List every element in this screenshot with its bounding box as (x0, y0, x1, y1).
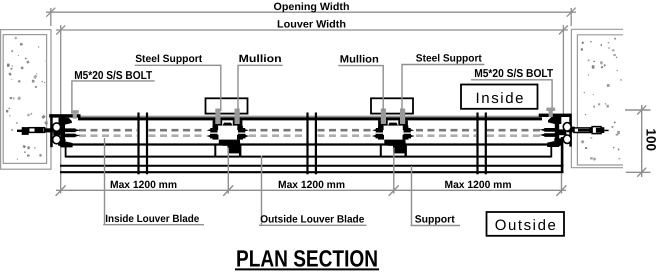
mullion M1 bottom bar (219, 140, 240, 145)
mullion M2 body left line below (380, 146, 382, 158)
left bracket upper blob (59, 118, 72, 125)
mullion M1 fin left lower (206, 134, 217, 139)
support label (411, 166, 461, 226)
louver frame top line (78, 117, 542, 120)
blade divider pair 2 (308, 113, 316, 175)
inside label box (461, 85, 538, 109)
mullion M1 corner block UR (237, 126, 243, 130)
right anchor bolt head (601, 127, 604, 133)
right bracket fin lower (540, 133, 556, 137)
right bracket nut between circles (559, 129, 566, 135)
M5*20 S/S bolt label left (72, 70, 155, 110)
right anchor bolt tip line (604, 130, 608, 132)
max 1200 mm dimension line (56, 185, 567, 196)
mullion M1 top cap (221, 123, 233, 128)
outside louver blade back line (66, 156, 552, 158)
mullion M2 corner block UR (403, 126, 409, 130)
svg-text:M5*20 S/S BOLT: M5*20 S/S BOLT (474, 68, 553, 80)
left anchor bolt mid block (35, 128, 44, 133)
left wall bracket assembly (17, 110, 81, 147)
opening width dimension (46, 8, 576, 26)
svg-text:Max 1200 mm: Max 1200 mm (445, 179, 512, 191)
mullion M1 bottom blob (228, 142, 241, 153)
left bracket bolt circle upper (53, 123, 61, 131)
svg-text:Steel Support: Steel Support (416, 52, 482, 64)
inside louver blade label (103, 138, 204, 225)
right bracket bottom blob (547, 138, 561, 147)
mullion 2 assembly (371, 98, 415, 157)
mullion M2 corner block UL (378, 126, 384, 130)
right bracket fin upper (540, 128, 556, 132)
mullion M1 fin left upper (207, 128, 218, 133)
mullion M2 bolt right (gray) (400, 109, 405, 125)
mullion label left (238, 53, 283, 111)
mullion 1 assembly (206, 98, 250, 157)
right bracket top plate (539, 114, 570, 117)
left bracket wall-face leg (50, 114, 53, 147)
mullion M1 fin right upper (238, 128, 249, 133)
mullion M2 top cap (387, 123, 399, 128)
mullion M2 bottom blob (393, 142, 406, 153)
mullion M2 fin left upper (372, 128, 383, 133)
mullion M2 fin left lower (372, 134, 383, 139)
svg-text:Max 1200 mm: Max 1200 mm (278, 179, 345, 191)
second louver blade (dashed, lighter) (79, 134, 545, 137)
blade frame right connector (550, 145, 552, 158)
steel support box M2 (371, 98, 413, 113)
blade divider pair 1 (139, 113, 148, 175)
mullion M2 corner block LL (378, 135, 384, 140)
left bracket fin lower (65, 134, 81, 138)
mullion label right (338, 53, 383, 111)
right bracket vertical bar (555, 116, 559, 145)
svg-text:100: 100 (644, 129, 657, 152)
svg-text:Support: Support (415, 213, 455, 225)
steel support label right (402, 52, 485, 111)
mullion M1 core white (217, 126, 238, 140)
right anchor bolt barrel 2 (outline) (592, 127, 601, 134)
steel support label left (135, 53, 221, 111)
left bracket S/S bolt head (gray) (71, 110, 79, 113)
svg-text:Outside Louver Blade: Outside Louver Blade (260, 213, 364, 225)
M5*20 S/S bolt label right (471, 68, 553, 108)
100 depth dimension (625, 105, 651, 177)
title PLAN SECTION (235, 246, 379, 272)
mullion M2 bolt left (gray) (381, 109, 386, 125)
left anchor bolt tip stub (17, 130, 23, 132)
max 1200 extension line right end (561, 174, 563, 194)
right anchor bolt barrel 2 thread (596, 128, 601, 133)
svg-text:Louver Width: Louver Width (277, 19, 346, 31)
right anchor bolt barrel 1 thread (578, 129, 590, 132)
left bracket bolt circle lower (53, 135, 61, 143)
max 1200 extension line at mullion 1 (227, 148, 229, 194)
mullion M2 nut right (398, 120, 408, 126)
right anchor bolt neck (567, 127, 575, 133)
left bracket vertical bar (61, 117, 65, 146)
mullion M2 fin right lower (404, 134, 415, 139)
right bracket S/S bolt stem (gray) (549, 111, 553, 117)
blade frame left connector (65, 145, 67, 158)
right bracket bolt circle upper (563, 123, 571, 131)
mullion M2 fin right upper (404, 128, 415, 133)
svg-text:Mullion: Mullion (340, 53, 379, 65)
mullion M2 body right line below (405, 146, 407, 158)
louver width dimension (56, 25, 568, 194)
left anchor bolt barrel (outline) (29, 128, 45, 133)
outside louver blade label (259, 156, 367, 226)
right wall (571, 29, 623, 167)
frame bottom line (60, 171, 564, 173)
mullion M1 body left line below (214, 146, 216, 158)
left bracket fin upper (65, 128, 81, 132)
outside louver blade front line (58, 143, 561, 145)
left bracket nut between circles (53, 130, 60, 136)
left wall (1, 30, 51, 170)
svg-text:Mullion: Mullion (239, 53, 282, 65)
right wall bracket assembly (539, 108, 609, 173)
svg-text:PLAN SECTION: PLAN SECTION (236, 246, 378, 272)
mullion M1 fin right lower (238, 134, 249, 139)
svg-text:Outside: Outside (495, 217, 556, 234)
steel support box M1 (206, 98, 248, 113)
mullion M2 nut left (378, 120, 388, 126)
mullion M1 nut left (213, 120, 223, 126)
svg-text:Max 1200 mm: Max 1200 mm (110, 179, 177, 191)
mullion M1 nut right (233, 120, 243, 126)
svg-text:Inside: Inside (476, 90, 524, 107)
right bracket bolt circle lower (563, 135, 571, 143)
mullion M1 bolt right (gray) (235, 109, 240, 125)
left anchor bolt neck (45, 128, 54, 132)
louver frame top gray fringe (80, 115, 541, 117)
svg-text:Opening Width: Opening Width (274, 1, 350, 13)
inside louver blade (dashed, hidden) (79, 129, 545, 132)
right bracket upper blob (548, 117, 561, 124)
mullion M2 corner block LR (403, 135, 409, 140)
left bracket bottom blob (58, 139, 72, 148)
mullion M1 corner block LL (213, 135, 219, 140)
right anchor bolt washer (590, 127, 593, 133)
right bracket S/S bolt head (gray) (546, 108, 555, 111)
mullion M1 body right line below (239, 146, 241, 158)
max 1200 extension line at mullion 2 (393, 148, 395, 194)
svg-text:Steel Support: Steel Support (135, 53, 202, 65)
mullion M1 corner block UL (213, 126, 219, 130)
outside label box (487, 212, 565, 236)
mullion M1 bolt left (gray) (215, 109, 220, 125)
left bracket S/S bolt stem (gray) (73, 114, 77, 119)
mullion M2 bottom bar (384, 140, 405, 145)
blade divider pair 3 (478, 113, 486, 175)
svg-text:Inside Louver Blade: Inside Louver Blade (105, 213, 199, 225)
right bracket outer vertical bar (black) (561, 137, 564, 173)
mullion M2 core white (383, 126, 404, 140)
mullion M1 bottom tail line (223, 144, 235, 146)
support rail line (60, 165, 564, 167)
mullion M2 bottom tail line (388, 144, 400, 146)
mullion M1 corner block LR (237, 135, 243, 140)
right bracket wall-face leg (569, 114, 572, 147)
left anchor bolt head (22, 127, 29, 135)
right anchor bolt barrel 1 (outline) (574, 128, 590, 133)
left bracket top plate (49, 114, 80, 117)
